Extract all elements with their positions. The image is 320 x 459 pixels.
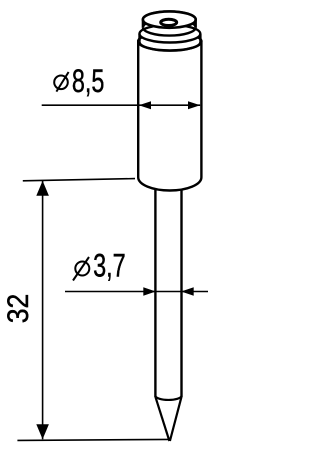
dimension 32 bottom extension line xyxy=(17,439,170,440)
svg-text:3,7: 3,7 xyxy=(93,246,126,283)
cap hole xyxy=(161,19,177,25)
needle cone base arc xyxy=(155,396,181,400)
flange top rim ellipse xyxy=(140,25,201,43)
needle cone left edge xyxy=(155,397,169,441)
cap bottom front arc xyxy=(143,27,196,35)
main cylinder body xyxy=(138,32,201,190)
dimension Ø8,5 right arrowhead xyxy=(188,101,200,109)
dimension 32 top extension line xyxy=(23,179,135,181)
dimension Ø3,7 left arrowhead xyxy=(143,287,156,296)
dimension Ø3,7 right arrowhead xyxy=(181,287,194,296)
diameter symbol for 8,5 xyxy=(54,72,68,92)
diameter symbol for 3,7 xyxy=(73,257,89,281)
svg-text:32: 32 xyxy=(2,294,35,324)
cap body xyxy=(143,11,196,27)
dimension 32 top arrowhead xyxy=(36,181,49,196)
dimension 32 bottom arrowhead xyxy=(36,424,49,439)
flange bottom front arc xyxy=(140,42,201,51)
cap top face ellipse xyxy=(143,11,196,27)
svg-text:8,5: 8,5 xyxy=(72,62,105,99)
dimension Ø8,5 left arrowhead xyxy=(139,101,151,109)
dimension 32 vertical dimension line xyxy=(42,181,44,440)
main cylinder top rim ellipse xyxy=(138,32,201,50)
dimension Ø8,5 leader/dimension line xyxy=(42,104,201,106)
flange (middle ring) body xyxy=(140,25,201,34)
dimension Ø3,7 leader/dimension line xyxy=(65,291,208,293)
needle shaft right wall xyxy=(180,185,182,397)
needle shaft left wall xyxy=(154,185,156,397)
needle cone right edge xyxy=(170,397,182,441)
